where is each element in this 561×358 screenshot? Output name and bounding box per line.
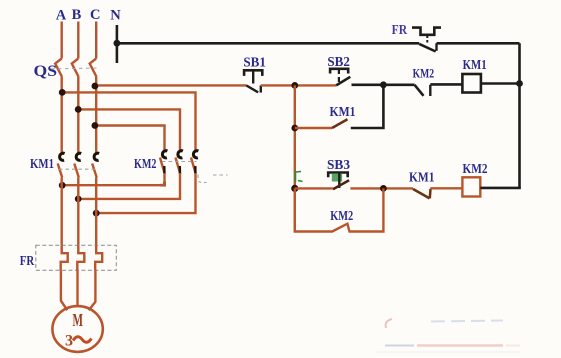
wire phase C incoming [95,22,97,59]
wire phase A incoming [61,22,63,59]
wire control feed from C to SB1 [95,84,246,86]
watermark faint strokes [375,319,520,352]
knife switch QS pole C blade [90,59,97,77]
svg-text:QS: QS [34,63,58,80]
wire SB1 to node1 and SB2 [261,84,336,86]
wire control vertical branch [294,85,296,231]
contactor KM1 self-holding NO contact [332,119,348,128]
KM2 linkage dashed [162,161,197,163]
FR heater element phase A [61,245,68,270]
motor tilde [73,337,91,343]
FR heater element phase C [95,245,102,270]
wire phase B incoming [77,22,79,59]
svg-text:KM2: KM2 [330,209,353,224]
svg-text:KM1: KM1 [330,105,356,120]
junction KM2 out3 on C [93,210,100,217]
wire phase C QS to KM1 [95,77,97,153]
pushbutton SB3 start-reverse NO [328,173,349,190]
svg-text:M: M [73,310,84,330]
svg-text:KM2: KM2 [463,162,488,177]
contactor KM2 main contact pole1 [160,151,167,174]
wire phase C KM1 to FR [95,178,97,246]
svg-text:3: 3 [65,333,73,350]
wire branch B to KM2 pole2 [78,109,180,152]
wire N bus to FR contact [117,42,419,45]
contactor KM2 main contact pole2 [176,151,183,174]
thermal relay FR NC contact [412,28,441,52]
svg-text:KM2: KM2 [413,66,435,81]
wire branch A to KM2 pole3 [62,92,195,152]
wire phase B KM1 to FR [77,178,79,246]
QS linkage dashed line [51,67,99,70]
svg-text:KM1: KM1 [463,57,487,72]
contactor KM1 main contact pole2 [74,153,81,177]
coil KM2 [462,177,480,196]
wire motor lead A [61,270,67,310]
wire phase A QS to KM1 [61,77,63,153]
junction N tap [114,40,121,47]
wire KM2 coil to bus [480,187,521,190]
wire KM2 pole1 black corner tip [161,182,165,186]
contactor KM1 main contact pole1 [58,153,65,177]
svg-text:A: A [56,8,67,24]
junction branch C [92,122,99,129]
svg-text:SB1: SB1 [243,56,266,71]
junction tee2 [380,185,387,192]
svg-text:FR: FR [20,254,35,269]
contactor KM2 main contact pole3 [191,151,198,174]
junction control tap on C [92,83,99,90]
svg-text:C: C [90,7,100,23]
KM1 linkage dashed [59,168,97,170]
wire FR contact to right bus [437,42,520,45]
pushbutton SB2 start-forward NO [330,69,350,86]
wire phase A KM1 to FR [61,178,63,246]
junction bus KM1 [516,80,523,87]
junction tee top [380,81,387,88]
contactor KM1 NC interlock contact [413,189,431,199]
wire KM1 NC to KM2 coil [430,187,462,189]
junction branch A [59,89,66,96]
motor M circle [52,306,102,352]
thermal overload FR box dashed [36,245,117,270]
svg-text:KM1: KM1 [409,171,435,186]
junction SB3 node [291,185,298,192]
contactor KM2 NC interlock contact [415,85,431,96]
wire motor lead B [76,270,78,306]
svg-text:N: N [110,8,121,24]
pushbutton SB1 stop NC [244,70,262,92]
wire KM2 selfhold loop with NO contact [295,188,384,231]
wire KM2 pole2 output to phase B [78,173,180,199]
svg-text:B: B [72,7,82,23]
junction control node1 [291,82,298,89]
wire SB2 to KM2 NC [352,84,415,87]
svg-text:SB3: SB3 [327,158,350,173]
wire SB3 line left [295,187,333,189]
wire KM2 NC to KM1 coil [430,83,462,86]
green artifact near node [296,172,303,182]
junction KM1 selfhold [291,125,298,132]
wire SB3 to KM1 NC [350,187,413,189]
junction KM2 out1 on A [59,182,66,189]
svg-text:KM1: KM1 [30,157,54,172]
FR heater element phase B [77,245,84,270]
wire branch C to KM2 pole1 [95,126,165,153]
wire motor lead C [89,270,96,310]
contactor KM1 main contact pole3 [92,153,99,177]
wire selfhold left [295,127,332,129]
svg-text:KM2: KM2 [134,157,157,172]
wire right bus vertical [518,43,521,188]
svg-text:FR: FR [392,23,408,38]
junction KM2 out2 on B [75,196,82,203]
knife switch QS pole B blade [72,59,79,77]
wire neutral N drop [116,25,119,63]
wire KM2 pole1 output to phase A [62,173,164,185]
interlock linkage dash fragments [198,175,228,183]
coil KM1 [462,74,481,93]
junction branch B [75,106,82,113]
wire KM2 pole3 output to phase C [96,173,195,213]
knife switch QS pole A blade [55,59,62,77]
wire KM1 selfhold to tee [351,85,384,128]
wire phase B QS to KM1 [77,77,79,153]
wire KM1 coil to bus [481,82,521,85]
